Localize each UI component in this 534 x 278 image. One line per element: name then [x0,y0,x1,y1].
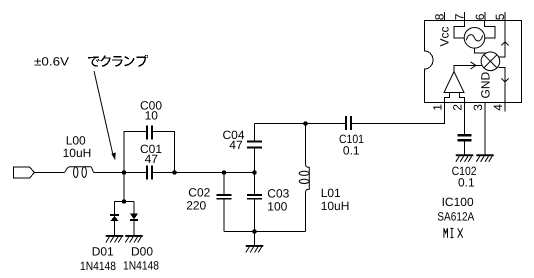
svg-text:C02: C02 [188,186,210,200]
svg-text:1: 1 [431,104,445,111]
svg-text:SA612A: SA612A [437,209,474,223]
svg-text:220: 220 [186,199,206,213]
svg-text:0.1: 0.1 [458,175,475,189]
svg-text:1N4148: 1N4148 [80,259,116,273]
svg-text:10: 10 [145,109,159,123]
svg-text:3: 3 [471,104,485,111]
svg-text:10uH: 10uH [321,199,350,213]
svg-text:GND: GND [479,72,493,99]
svg-text:IC100: IC100 [442,195,474,209]
svg-text:100: 100 [267,199,287,213]
svg-text:Vcc: Vcc [438,26,452,46]
svg-text:10uH: 10uH [63,146,92,160]
svg-text:1N4148: 1N4148 [123,259,159,273]
svg-text:47: 47 [145,152,159,166]
svg-text:4: 4 [491,104,505,111]
svg-text:5: 5 [493,13,507,20]
svg-text:47: 47 [229,138,243,152]
svg-text:8: 8 [433,13,447,20]
svg-text:±0.6V: ±0.6V [34,54,69,68]
svg-text:0.1: 0.1 [343,143,360,157]
svg-text:7: 7 [453,13,467,20]
svg-text:D01: D01 [92,245,114,259]
svg-text:D00: D00 [131,245,153,259]
svg-text:2: 2 [451,104,465,111]
svg-text:6: 6 [473,13,487,20]
